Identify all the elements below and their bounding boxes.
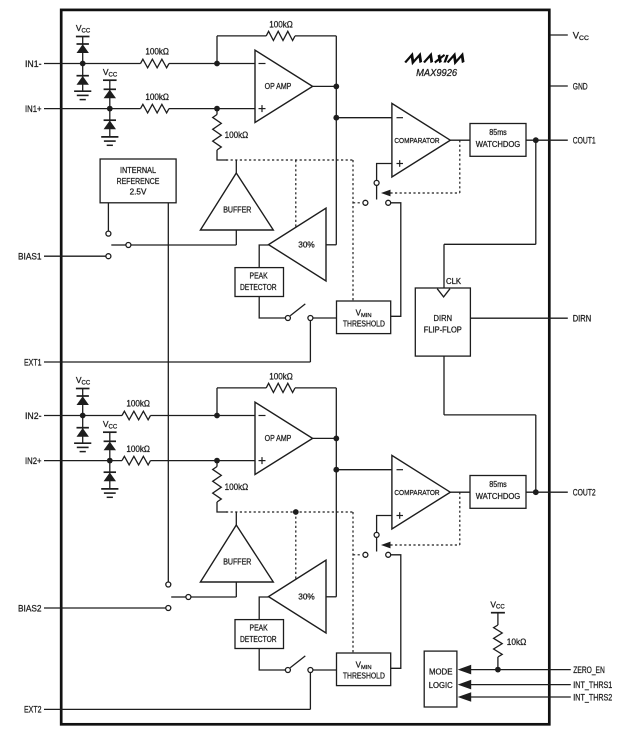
svg-text:BIAS1: BIAS1 [18, 252, 42, 263]
node dashed net junction channel 2 [293, 509, 299, 515]
pin DIRN stub [550, 317, 568, 319]
svg-text:DETECTOR: DETECTOR [240, 635, 277, 644]
wire peak detector 1 output [259, 297, 285, 319]
svg-text:BIAS2: BIAS2 [18, 603, 42, 614]
svg-text:MAX9926: MAX9926 [416, 68, 457, 79]
wire IN2+ to op-amp 2 noninverting input [151, 460, 256, 462]
resistor 100k feedback op-amp 1 [266, 19, 295, 40]
svg-text:BUFFER: BUFFER [223, 557, 251, 566]
svg-text:PEAK: PEAK [250, 624, 269, 633]
attenuator 30% channel 1 [269, 208, 327, 281]
svg-text:FLIP-FLOP: FLIP-FLOP [424, 326, 462, 335]
wire IN2- to op-amp 2 inverting input [151, 415, 256, 417]
dashed net channel 2 horizontal [226, 511, 353, 513]
node ZERO_EN junction [495, 667, 501, 673]
DIRN flip-flop block [415, 288, 470, 356]
wire IN2- input line [62, 415, 123, 417]
node IN1- clamp junction [80, 61, 86, 67]
arrow ZERO_EN input [458, 665, 472, 675]
Vmin threshold 1 block [337, 301, 391, 334]
pin IN2- stub [44, 415, 62, 417]
svg-text:100kΩ: 100kΩ [126, 399, 150, 409]
svg-text:WATCHDOG: WATCHDOG [476, 492, 521, 501]
dashed stub to switch S2 left throw [353, 202, 360, 204]
node IN1- feedback junction [214, 61, 220, 67]
pin BIAS2 stub [44, 607, 62, 609]
wire INT_THRS2 into mode logic [471, 696, 550, 698]
wire feedback right riser to output [335, 36, 337, 87]
svg-text:OP AMP: OP AMP [265, 82, 292, 91]
wire EXT2 riser [309, 673, 311, 710]
wire watchdog 2 output to COUT2 [526, 491, 550, 493]
node IN1+ clamp junction [107, 106, 113, 112]
wire pull-up to ZERO_EN [497, 657, 499, 670]
resistor 10k pull-up [494, 625, 527, 657]
node comparator 1 input tap [333, 115, 339, 121]
svg-text:CLK: CLK [446, 277, 462, 286]
wire comparator 2 noninverting input [377, 516, 392, 533]
svg-text:IN1+: IN1+ [25, 104, 42, 115]
pin ZERO_EN stub [550, 669, 571, 671]
wire CLK from COUT1 node down [535, 140, 537, 244]
pin INT_THRS2 stub [550, 696, 571, 698]
svg-text:85ms: 85ms [489, 480, 507, 489]
wire CLK horizontal [444, 243, 536, 245]
pin EXT2 stub [44, 708, 62, 710]
attenuator 30% channel 2 [269, 560, 327, 633]
node op-amp 2 output junction [333, 436, 339, 442]
wire flip-flop D input down [443, 356, 445, 415]
ground symbol under D6 [74, 442, 91, 444]
switch S6 peak detector 2 [285, 656, 313, 673]
svg-text:DIRN: DIRN [434, 314, 453, 323]
wire comparator 1 noninverting input [377, 164, 392, 181]
wire DIRN output [470, 317, 550, 319]
pin IN2+ stub [44, 460, 62, 462]
buffer 1 triangle [200, 173, 273, 230]
node COUT1 junction [533, 137, 539, 143]
wire IN2+ input line [62, 460, 123, 462]
svg-text:100kΩ: 100kΩ [269, 19, 293, 29]
node IN2+ bias junction [214, 458, 220, 464]
wire feedback top right [295, 35, 336, 37]
arrow INT_THRS2 input [458, 692, 472, 702]
resistor 100k feedback op-amp 2 [266, 371, 295, 392]
svg-text:DETECTOR: DETECTOR [240, 283, 277, 292]
wire output down to comparator tap [335, 86, 337, 117]
svg-text:THRESHOLD: THRESHOLD [343, 672, 385, 681]
wire output 2 down to attenuator [335, 470, 337, 597]
arrow INT_THRS1 input [458, 680, 472, 690]
buffer 2 triangle [200, 525, 273, 582]
resistor 100k IN1+ series [141, 92, 170, 113]
dashed drop to attenuator 1 [295, 160, 297, 228]
wire bias leg 2 to dashed net [217, 502, 227, 512]
internal reference 2.5V block [100, 159, 176, 203]
switch S2 comparator 1 reference [363, 180, 391, 205]
85ms watchdog 2 block [470, 476, 526, 509]
svg-text:100kΩ: 100kΩ [145, 47, 169, 57]
node comparator 2 input tap [333, 467, 339, 473]
ground symbol under D4 [101, 136, 118, 138]
svg-text:LOGIC: LOGIC [429, 681, 453, 690]
wire feedback left riser [216, 36, 218, 64]
comparator U2 triangle [392, 103, 450, 177]
node op-amp 1 output junction [333, 84, 339, 90]
pin INT_THRS1 stub [550, 684, 571, 686]
pin COUT1 stub [550, 139, 568, 141]
wire buffer 2 input stub [235, 512, 237, 525]
wire switch S6 to Vmin threshold 2 [313, 669, 337, 671]
wire op-amp 2 output [313, 437, 337, 439]
node IN2- clamp junction [80, 413, 86, 419]
node IN2+ clamp junction [107, 458, 113, 464]
Vmin threshold 2 block [337, 653, 391, 686]
dashed drop to attenuator 2 [295, 512, 297, 580]
dashed stub to switch S5 left throw [353, 554, 360, 556]
wire switch S4 to buffer 2 output [191, 596, 236, 598]
wire flip-flop D input horizontal [444, 414, 536, 416]
pin COUT2 stub [550, 491, 568, 493]
pin IN1+ stub [44, 108, 62, 110]
wire switch S1 to buffer 1 output [131, 244, 236, 246]
wire attenuator 2 input stub [326, 596, 336, 598]
dashed hysteresis feedback channel 2 [390, 544, 459, 546]
svg-text:BUFFER: BUFFER [223, 205, 251, 214]
ground symbol under D8 [101, 488, 118, 490]
wire to comparator 1 inverting input [336, 117, 392, 119]
dashed drop to Vmin threshold 2 [352, 512, 354, 653]
wire reference left output [107, 203, 109, 231]
85ms watchdog 1 block [470, 124, 526, 157]
svg-text:THRESHOLD: THRESHOLD [343, 320, 385, 329]
wire CLK drop to flip-flop [443, 244, 445, 288]
svg-text:10kΩ: 10kΩ [507, 637, 527, 647]
wire feedback 2 left riser [216, 388, 218, 416]
wire EXT2 horizontal [62, 708, 311, 710]
svg-text:100kΩ: 100kΩ [269, 371, 293, 381]
wire bias leg to dashed net [217, 150, 227, 160]
svg-text:EXT1: EXT1 [24, 357, 42, 368]
wire IN1- to op-amp inverting input [169, 63, 255, 65]
wire buffer 2 output drop [235, 582, 237, 597]
svg-text:100kΩ: 100kΩ [145, 92, 169, 102]
switch S1 BIAS1 select [106, 231, 131, 259]
svg-text:PEAK: PEAK [250, 272, 269, 281]
switch S4 BIAS2 select [166, 582, 191, 611]
hysteresis control arrow channel 1 [381, 190, 391, 197]
wire attenuator 1 to peak detector [259, 245, 268, 268]
Vcc pull-up supply [490, 600, 505, 626]
node IN1+ bias junction [214, 106, 220, 112]
resistor 100k op-amp 1 bias leg [213, 109, 249, 150]
svg-text:OP AMP: OP AMP [265, 434, 292, 443]
wire EXT1 horizontal [62, 361, 311, 363]
svg-text:2.5V: 2.5V [130, 188, 147, 197]
svg-text:30%: 30% [298, 241, 315, 250]
wire comparator 1 output to watchdog [450, 139, 470, 141]
svg-text:ZERO_EN: ZERO_EN [573, 665, 605, 676]
pin GND stub [550, 85, 568, 87]
wire IN1- input line [62, 63, 141, 65]
svg-text:INTERNAL: INTERNAL [120, 166, 157, 175]
comparator U4 triangle [392, 455, 450, 529]
svg-text:WATCHDOG: WATCHDOG [476, 140, 521, 149]
wire IN1+ to op-amp noninverting input [169, 108, 255, 110]
wire feedback 2 top left [217, 387, 266, 389]
wire attenuator 2 to peak detector [259, 597, 268, 620]
IC boundary border [61, 10, 549, 724]
hysteresis control arrow channel 2 [381, 542, 391, 549]
wire buffer 1 input stub [235, 160, 237, 173]
Vcc clamp diodes D5 D6 on IN2- [76, 375, 91, 443]
wire Vmin 1 output right [391, 203, 401, 316]
wire output 2 down to comparator tap [335, 438, 337, 469]
svg-text:REFERENCE: REFERENCE [117, 177, 160, 186]
wire reference right output to channel 2 [167, 203, 169, 582]
svg-text:EXT2: EXT2 [24, 705, 42, 716]
wire flip-flop D input to COUT2 node [535, 415, 537, 492]
op-amp U1 triangle [255, 50, 313, 122]
svg-text:INT_THRS1: INT_THRS1 [573, 680, 612, 691]
dashed net channel 1 horizontal [226, 159, 353, 161]
svg-text:IN2+: IN2+ [25, 456, 42, 467]
wire feedback 2 right riser [335, 388, 337, 439]
Vcc clamp diodes D3 D4 on IN1+ [103, 67, 118, 137]
svg-text:100kΩ: 100kΩ [126, 444, 150, 454]
pin IN1- stub [44, 63, 62, 65]
dashed drop to Vmin threshold 1 [352, 160, 354, 301]
wire BIAS1 to switch [62, 255, 106, 257]
svg-text:MODE: MODE [429, 667, 453, 676]
dashed hysteresis feedback channel 1 [390, 192, 459, 194]
resistor 100k IN2- series [122, 399, 151, 420]
wire BIAS2 to switch [62, 607, 166, 609]
svg-text:30%: 30% [298, 593, 315, 602]
svg-text:85ms: 85ms [489, 128, 507, 137]
peak detector 1 block [235, 268, 284, 297]
wire peak detector 2 output [259, 649, 285, 671]
wire feedback top left [217, 35, 266, 37]
svg-text:IN1-: IN1- [25, 59, 42, 70]
wire Vmin 2 output right [391, 555, 401, 669]
switch S3 peak detector 1 [285, 304, 313, 321]
svg-text:COMPARATOR: COMPARATOR [394, 488, 440, 497]
wire IN1+ input line [62, 108, 141, 110]
svg-text:GND: GND [573, 81, 588, 92]
Vcc clamp diodes D7 D8 on IN2+ [103, 419, 118, 489]
wire switch S3 to Vmin threshold 1 [313, 317, 337, 319]
pin VCC stub [550, 34, 568, 36]
wire comparator 2 output to watchdog [450, 491, 470, 493]
wire feedback 2 top right [295, 387, 336, 389]
wire output down to attenuator [335, 118, 337, 245]
peak detector 2 block [235, 620, 284, 649]
svg-text:DIRN: DIRN [573, 314, 592, 325]
pin BIAS1 stub [44, 255, 62, 257]
svg-text:COUT1: COUT1 [573, 136, 596, 147]
ground symbol under D2 [74, 90, 91, 92]
wire to comparator 2 inverting input [336, 469, 392, 471]
switch S5 comparator 2 reference [363, 532, 391, 557]
resistor 100k op-amp 2 bias leg [213, 461, 249, 502]
svg-text:COUT2: COUT2 [573, 488, 596, 499]
wire buffer 1 output drop [235, 230, 237, 245]
resistor 100k IN2+ series [122, 444, 151, 465]
wire INT_THRS1 into mode logic [471, 684, 550, 686]
wire EXT1 riser [309, 321, 311, 363]
wire ZERO_EN into mode logic [471, 669, 550, 671]
pin EXT1 stub [44, 361, 62, 363]
op-amp U3 triangle [255, 402, 313, 474]
Vcc clamp diodes D1 D2 on IN1- [76, 23, 91, 91]
node IN2- feedback junction [214, 413, 220, 419]
resistor 100k IN1- series [141, 47, 170, 68]
svg-text:INT_THRS2: INT_THRS2 [573, 692, 612, 703]
Maxim logo [405, 55, 466, 63]
wire attenuator 1 input stub [326, 244, 336, 246]
node COUT2 junction [533, 489, 539, 495]
svg-text:COMPARATOR: COMPARATOR [394, 136, 440, 145]
wire watchdog 1 output to COUT1 [526, 139, 550, 141]
mode logic block [424, 651, 457, 707]
svg-text:100kΩ: 100kΩ [225, 130, 249, 140]
svg-text:IN2-: IN2- [25, 411, 42, 422]
svg-text:100kΩ: 100kΩ [225, 482, 249, 492]
wire op-amp 1 output [313, 85, 337, 87]
